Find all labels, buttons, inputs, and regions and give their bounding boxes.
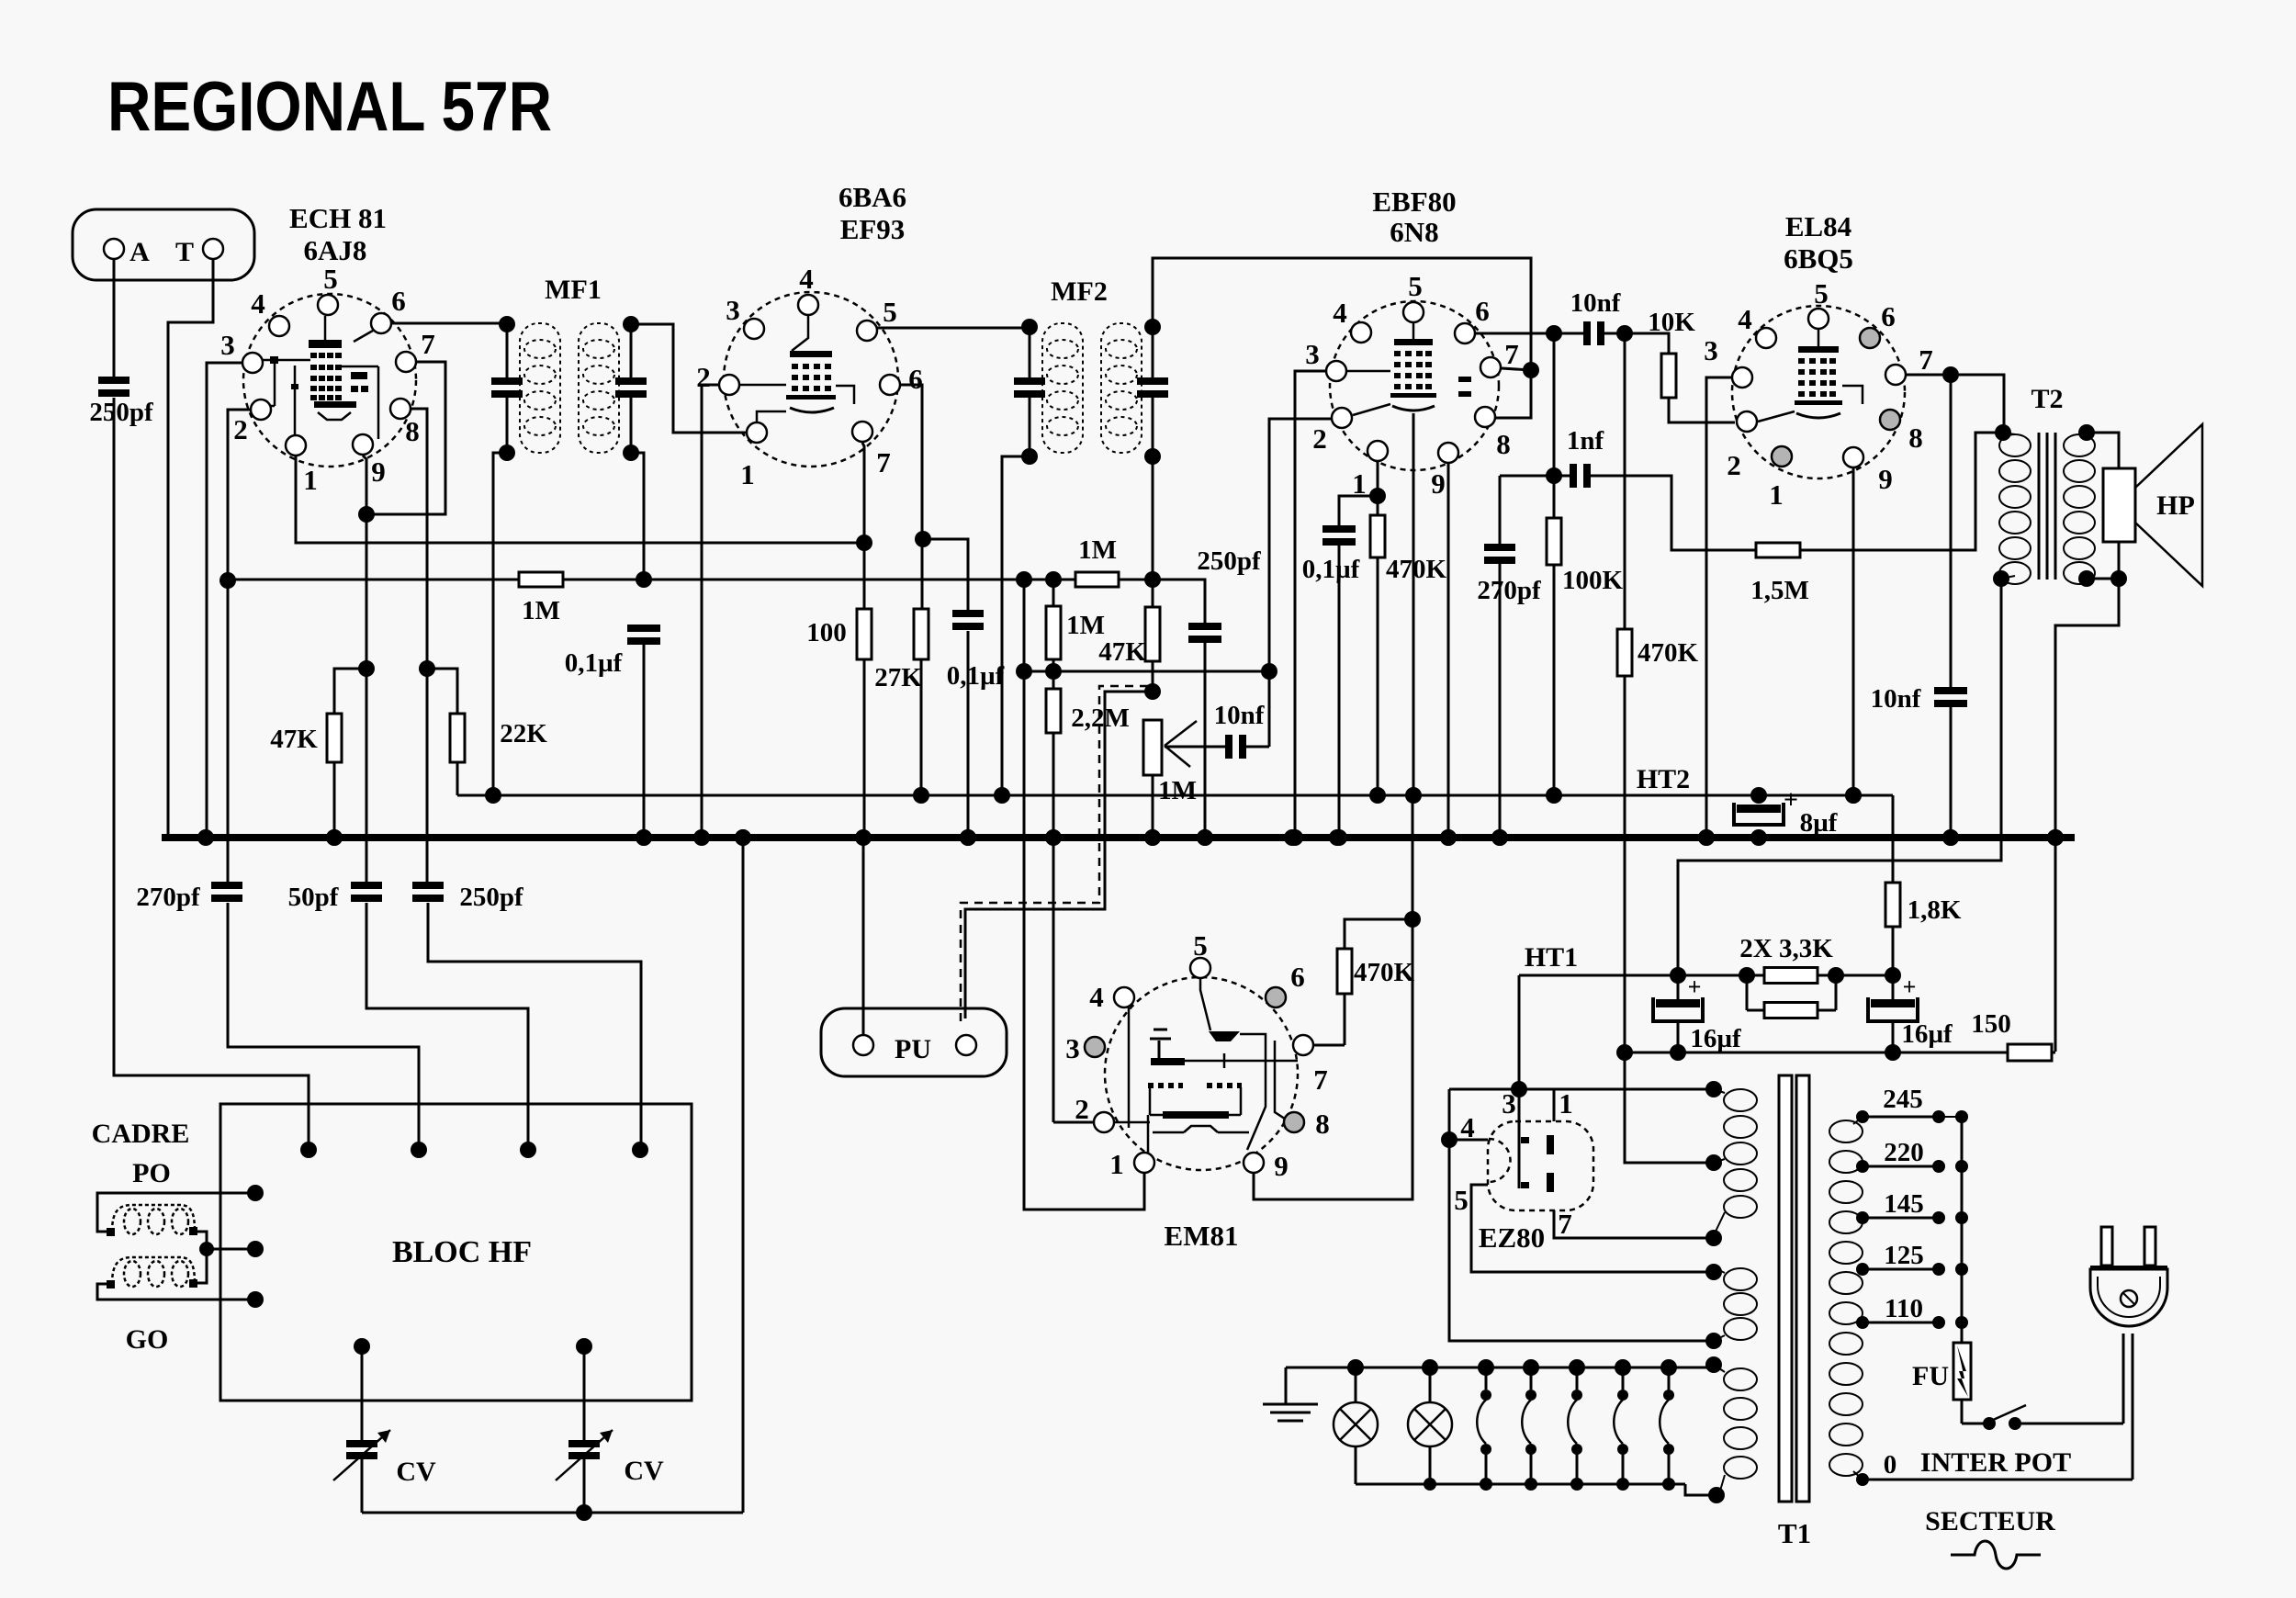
- wire 250pf to BLOC HF: [428, 903, 641, 1150]
- svg-text:7: 7: [421, 328, 435, 360]
- svg-text:2: 2: [233, 413, 248, 445]
- wire 27K to HT2: [920, 659, 923, 795]
- resistor 10K grid stopper: [1661, 354, 1676, 398]
- svg-text:+: +: [1784, 786, 1798, 815]
- EL84 pin 6: [1860, 328, 1880, 348]
- MF1 secondary wire and tuning capacitor: [630, 323, 633, 377]
- wire EM81 pin2 cathode to ground: [1053, 1121, 1093, 1124]
- resistor 47K detector: [1152, 580, 1154, 607]
- svg-text:+: +: [1903, 973, 1917, 1000]
- svg-text:A: A: [129, 237, 150, 267]
- node screen network: [915, 531, 931, 547]
- svg-text:MF2: MF2: [1051, 276, 1108, 307]
- svg-text:16µf: 16µf: [1690, 1024, 1741, 1053]
- svg-text:EF93: EF93: [840, 213, 906, 245]
- svg-text:ECH 81: ECH 81: [289, 202, 387, 234]
- tube V4 EL84 envelope: [1732, 306, 1905, 478]
- svg-text:6BQ5: 6BQ5: [1784, 242, 1853, 275]
- wire ECH81 pin1 cathode line: [296, 456, 864, 543]
- wire ECH81 pin9 down: [363, 456, 366, 882]
- svg-text:CV: CV: [624, 1456, 664, 1486]
- terminal T: [203, 239, 223, 259]
- EM81 interior electrodes: [1158, 1041, 1161, 1058]
- svg-text:4: 4: [799, 263, 814, 295]
- svg-text:5: 5: [1193, 929, 1208, 962]
- resistor 47K oscillator grid leak: [327, 714, 342, 762]
- tap 125: [1863, 1268, 1939, 1271]
- wire 0,1uf to ground bus: [1338, 546, 1341, 835]
- HT2 feed 1,8K from HT1: [1892, 795, 1895, 883]
- wire ECH81 pin2 down (oscillator grid): [228, 410, 250, 882]
- MF2 primary wire and tuning capacitor: [1029, 323, 1031, 377]
- PU terminal right: [956, 1035, 976, 1055]
- svg-text:REGIONAL 57R: REGIONAL 57R: [107, 68, 552, 146]
- tap 145: [1863, 1217, 1939, 1220]
- wire EM81 grid feed: [1024, 580, 1144, 1210]
- ECH81 pin 5: [318, 295, 338, 315]
- wire 0,1uf to ground bus: [967, 631, 970, 835]
- wire ECH81 pin6 to MF1: [392, 322, 507, 325]
- wire 47K to potentiometer: [1152, 661, 1154, 692]
- node pin7/pin9: [358, 506, 375, 523]
- wire 6BA6 pin6 screen: [901, 385, 922, 539]
- HT1 line: [1519, 974, 1893, 977]
- svg-text:1nf: 1nf: [1567, 426, 1604, 456]
- MF2 secondary wire and tuning capacitor: [1152, 323, 1154, 377]
- svg-text:1,5M: 1,5M: [1750, 576, 1809, 605]
- 6BA6 pin 7: [852, 422, 872, 442]
- EBF80 pin 6: [1455, 323, 1475, 343]
- pilot lamp 2: [1429, 1367, 1432, 1402]
- wire T2 secondary bottom to ground bus: [2055, 579, 2119, 1052]
- wire grid line EBF80 pin2: [1269, 419, 1331, 747]
- svg-text:125: 125: [1884, 1241, 1924, 1270]
- wire 1,8K to HT1 node: [1892, 927, 1895, 975]
- tap 0: [1856, 1473, 1869, 1486]
- tap 220: [1863, 1165, 1939, 1168]
- EZ80 interior: [1489, 1139, 1511, 1182]
- wire 100K to HT2: [1553, 565, 1556, 795]
- wire plate node down: [1553, 333, 1556, 476]
- wire to 22K: [427, 669, 457, 714]
- svg-text:0,1µf: 0,1µf: [565, 648, 623, 678]
- svg-text:0,1µf: 0,1µf: [947, 661, 1005, 691]
- svg-text:9: 9: [1274, 1150, 1289, 1182]
- svg-text:2: 2: [1075, 1093, 1089, 1125]
- wire GO bottom to BLOC HF: [97, 1284, 255, 1300]
- svg-text:T2: T2: [2031, 384, 2063, 414]
- chassis ground symbol: [1285, 1367, 1288, 1404]
- T1 pilot winding: [1724, 1368, 1757, 1390]
- pilot lamp 1: [1355, 1367, 1357, 1402]
- wire 6BA6 pin5 to MF2: [877, 327, 1030, 330]
- resistor 22K: [450, 714, 465, 762]
- MF2 primary winding: [1042, 323, 1083, 453]
- svg-text:0,1µf: 0,1µf: [1302, 555, 1360, 584]
- wire MF1 secondary top to 6BA6 grid: [631, 324, 746, 433]
- svg-text:100K: 100K: [1562, 566, 1624, 595]
- EBF80 pin 3: [1326, 361, 1346, 381]
- svg-text:4: 4: [251, 287, 265, 320]
- svg-text:T: T: [175, 237, 194, 267]
- capacitor 16uf filter left: [1677, 975, 1680, 999]
- svg-text:10nf: 10nf: [1570, 288, 1621, 318]
- resistor 1M AVC: [519, 572, 563, 587]
- svg-text:245: 245: [1883, 1085, 1923, 1114]
- svg-text:FU: FU: [1912, 1361, 1949, 1391]
- wire pot to ground bus: [1152, 775, 1154, 835]
- svg-text:INTER POT: INTER POT: [1920, 1447, 2071, 1478]
- AVC line continues: [563, 579, 1075, 581]
- EL84 pin 1: [1772, 446, 1792, 467]
- AVC resistor chain link: [1024, 670, 1269, 673]
- wire antenna A down: [113, 260, 116, 377]
- 6BA6 interior electrodes: [790, 351, 832, 357]
- resistor 1,5M feedback: [1756, 543, 1800, 557]
- svg-text:6: 6: [1290, 961, 1305, 993]
- capacitor 270pf: [211, 882, 242, 889]
- mains sine symbol: [1951, 1541, 2041, 1569]
- capacitor 1nf feedback: [1500, 475, 1570, 478]
- shielded wire dashed screen: [961, 686, 1148, 1021]
- capacitor 250pf oscillator: [412, 882, 444, 889]
- EM81 pin 5: [1190, 958, 1210, 978]
- resistor 470K bias feed: [1624, 333, 1626, 629]
- mains plug SECTEUR: [2101, 1227, 2112, 1266]
- svg-text:2: 2: [1312, 422, 1327, 455]
- fuse FU: [1953, 1343, 1971, 1400]
- wire EZ80 heater-cathode link: [1449, 1088, 1519, 1091]
- BLOC HF input nodes: [300, 1142, 317, 1158]
- tube V2 6BA6 envelope: [724, 292, 898, 467]
- T2 primary winding: [1999, 434, 2031, 456]
- wire 270pf to ground bus: [1499, 564, 1502, 835]
- BLOC HF box: [220, 1104, 692, 1401]
- svg-text:470K: 470K: [1386, 555, 1447, 584]
- svg-text:HT2: HT2: [1637, 764, 1690, 794]
- wire EBF80 pin3 diode to ground bus: [1295, 371, 1325, 835]
- svg-text:CV: CV: [396, 1457, 436, 1487]
- capacitor 0,1uf AVC: [627, 625, 660, 632]
- svg-text:9: 9: [1431, 467, 1446, 500]
- wire 150 to secondary return: [2052, 1052, 2055, 1054]
- tube V1 ECH81 envelope: [243, 294, 416, 467]
- svg-text:6: 6: [391, 285, 406, 317]
- svg-text:220: 220: [1884, 1138, 1924, 1167]
- wire 270pf to BLOC HF: [228, 903, 419, 1150]
- EL84 pin 8: [1880, 410, 1900, 430]
- svg-text:8µf: 8µf: [1800, 808, 1838, 838]
- svg-text:1: 1: [303, 464, 318, 496]
- svg-text:1: 1: [1769, 478, 1784, 511]
- svg-text:10K: 10K: [1648, 308, 1695, 337]
- wire to 47K: [334, 669, 366, 714]
- switch INTER POT: [1961, 1400, 1964, 1424]
- capacitor 16uf filter right: [1892, 975, 1895, 999]
- T2 core: [2038, 433, 2041, 580]
- tube V3 EBF80 envelope: [1330, 301, 1499, 470]
- wire 10nf to ground bus: [1950, 707, 1953, 835]
- wire 2,2M to ground bus and EM81 cathode: [1052, 733, 1055, 1122]
- svg-text:7: 7: [1313, 1063, 1328, 1096]
- wire MF1 primary bottom to HT2: [493, 453, 507, 795]
- svg-text:6N8: 6N8: [1390, 216, 1438, 248]
- svg-text:3: 3: [220, 329, 235, 361]
- svg-text:9: 9: [1878, 463, 1893, 495]
- svg-text:16µf: 16µf: [1901, 1019, 1953, 1049]
- wire 47K to ground bus: [333, 762, 336, 835]
- wire MF2 secondary bottom to detector: [1152, 456, 1154, 580]
- wire 470K to HT2: [1377, 557, 1379, 795]
- svg-text:+: +: [1688, 973, 1702, 1000]
- wire EBF80 pin1 node: [1377, 462, 1379, 496]
- svg-text:T1: T1: [1778, 1517, 1811, 1549]
- EM81 pin 8: [1284, 1112, 1304, 1132]
- coil PO: [124, 1209, 141, 1234]
- svg-text:0: 0: [1884, 1450, 1897, 1480]
- ECH81 pin 9: [353, 434, 373, 455]
- svg-text:270pf: 270pf: [136, 883, 200, 912]
- svg-text:22K: 22K: [500, 719, 547, 748]
- EL84 interior electrodes: [1818, 330, 1820, 349]
- capacitor 250pf detector: [1153, 580, 1205, 623]
- EM81 pin 2: [1094, 1112, 1114, 1132]
- terminal A: [104, 239, 124, 259]
- svg-text:6: 6: [1881, 300, 1896, 332]
- svg-text:470K: 470K: [1354, 958, 1415, 987]
- svg-text:1M: 1M: [1158, 776, 1197, 805]
- svg-text:50pf: 50pf: [288, 883, 339, 912]
- wire 1,5M to T2 primary top: [1800, 433, 2003, 550]
- resistor 470K EBF80: [1377, 496, 1379, 515]
- wire T2 secondary top to speaker: [2087, 433, 2119, 468]
- speaker HP: [2103, 468, 2135, 542]
- svg-text:6AJ8: 6AJ8: [304, 234, 367, 266]
- wire antenna to BLOC HF input: [114, 398, 309, 1150]
- svg-text:470K: 470K: [1638, 638, 1699, 668]
- ECH81 pin 3: [242, 353, 263, 373]
- svg-text:250pf: 250pf: [459, 883, 523, 912]
- wire EZ80 pin5 heater: [1471, 1185, 1714, 1272]
- wire 6BA6 pin7 cathode: [862, 443, 864, 609]
- wire EZ80 pin7 plate 2 to HV bottom: [1554, 1210, 1714, 1238]
- variable capacitor CV1: [361, 1346, 364, 1440]
- variable capacitor CV2: [583, 1346, 586, 1440]
- voltage selector line: [1961, 1117, 1964, 1343]
- wire T2 primary bottom to HT1: [1678, 579, 2001, 973]
- svg-text:3: 3: [726, 294, 740, 326]
- shielded wire solid conductor pot to PU: [965, 692, 1153, 1018]
- T1 heater winding: [1724, 1268, 1757, 1290]
- wire MF2 secondary top to EBF80 pins 7,8: [1153, 258, 1531, 418]
- capacitor 10nf coupling: [1583, 321, 1591, 345]
- T1 primary winding: [1829, 1120, 1863, 1142]
- AVC line: [228, 579, 519, 581]
- svg-text:110: 110: [1885, 1294, 1923, 1323]
- EL84 pin 4: [1756, 328, 1776, 348]
- wire EL84 pin9 screen to HT2: [1852, 468, 1855, 795]
- svg-text:3: 3: [1305, 338, 1320, 370]
- MF1 secondary winding: [579, 323, 619, 453]
- svg-text:2: 2: [696, 361, 711, 393]
- EBF80 pin 9: [1438, 443, 1458, 463]
- svg-text:HP: HP: [2156, 490, 2195, 521]
- wire 22K to HT2 line: [456, 762, 459, 795]
- capacitor 0,1uf screen bypass: [952, 610, 984, 617]
- T2 secondary winding: [2064, 434, 2095, 456]
- capacitor 0,1uf EBF80 cathode: [1339, 496, 1378, 525]
- junction 47K tap: [358, 660, 375, 677]
- wire EL84 pin3 cathode to ground bus: [1706, 377, 1731, 835]
- svg-text:5: 5: [1814, 277, 1829, 309]
- ECH81 pin 1: [286, 435, 306, 456]
- resistor 27K screen feed: [921, 539, 924, 609]
- svg-text:150: 150: [1971, 1009, 2011, 1039]
- wire 470K top to HT2 riser: [1345, 919, 1412, 949]
- EL84 pin 2: [1737, 411, 1757, 432]
- wire 1M to MF2 secondary: [1119, 579, 1153, 581]
- svg-text:4: 4: [1333, 297, 1347, 329]
- potentiometer wiper arrow: [1165, 721, 1197, 746]
- EBF80 pin 7: [1480, 357, 1501, 377]
- wire CV ground return to bus: [362, 1512, 743, 1514]
- EM81 pin 7: [1293, 1035, 1313, 1055]
- 6BA6 pin 4: [798, 295, 818, 315]
- svg-text:1M: 1M: [522, 596, 560, 625]
- HT2 rail: [457, 794, 1893, 797]
- capacitor 8uf HT2 filter: [1737, 805, 1781, 813]
- svg-text:6: 6: [908, 363, 923, 395]
- EM81 pin 3: [1085, 1037, 1105, 1057]
- capacitor 50pf: [351, 882, 382, 889]
- svg-text:PU: PU: [895, 1034, 931, 1064]
- pickup input box PU: [821, 1008, 1007, 1076]
- svg-text:10nf: 10nf: [1871, 684, 1921, 714]
- wire EM81 pin7 to 470K: [1314, 1044, 1345, 1047]
- EBF80 pin 1: [1367, 441, 1388, 461]
- svg-text:5: 5: [1454, 1184, 1469, 1216]
- wire ECH81 pin3 to ground bus: [207, 363, 242, 835]
- svg-text:6: 6: [1475, 295, 1490, 327]
- svg-text:5: 5: [323, 263, 338, 295]
- wire 1nf to 1,5M: [1590, 476, 1756, 550]
- ECH81 interior electrodes: [324, 316, 327, 340]
- EBF80 pin 4: [1351, 322, 1371, 343]
- svg-text:CADRE: CADRE: [92, 1119, 190, 1149]
- MF1 primary winding: [520, 323, 560, 453]
- wire EBF80 pin6 plate: [1476, 332, 1583, 335]
- svg-text:270pf: 270pf: [1477, 576, 1541, 605]
- wire 10nf to 10K: [1604, 332, 1625, 335]
- coil GO: [124, 1261, 141, 1287]
- svg-text:1M: 1M: [1066, 611, 1105, 640]
- EM81 pin 4: [1114, 987, 1134, 1007]
- BLOC HF tuning nodes: [354, 1338, 370, 1355]
- EBF80 interior electrodes: [1412, 323, 1415, 342]
- T1 HV secondary winding: [1724, 1089, 1757, 1111]
- svg-text:HT1: HT1: [1525, 942, 1578, 973]
- ECH81 pin 2: [251, 399, 271, 420]
- resistor 2,2M AVC: [1052, 659, 1055, 689]
- svg-text:47K: 47K: [1098, 637, 1146, 667]
- wire AVC cap to ground bus: [643, 645, 646, 835]
- svg-text:8: 8: [1315, 1108, 1330, 1140]
- svg-text:4: 4: [1089, 981, 1104, 1013]
- EBF80 pin 8: [1475, 407, 1495, 427]
- resistor 1M detector load: [1075, 572, 1119, 587]
- tap 110: [1863, 1322, 1939, 1324]
- tap 245: [1863, 1116, 1939, 1119]
- wire EZ80 plate 1 to HV top: [1519, 1088, 1714, 1091]
- svg-text:7: 7: [1504, 338, 1519, 370]
- wire 50pf to BLOC HF: [366, 903, 528, 1150]
- EM81 pin 6: [1266, 987, 1286, 1007]
- wire MF1 secondary bottom to AVC: [631, 453, 644, 580]
- resistor 100 cathode bias: [857, 609, 872, 659]
- svg-text:3: 3: [1704, 334, 1718, 366]
- svg-text:7: 7: [1558, 1208, 1572, 1240]
- wire 470K to bias rail and HV centre tap: [1625, 676, 1714, 1163]
- wire 100 to ground bus: [863, 659, 866, 835]
- resistor 100K: [1553, 476, 1556, 518]
- EL84 pin 7: [1885, 365, 1906, 385]
- T1 core: [1779, 1075, 1792, 1502]
- svg-text:1,8K: 1,8K: [1908, 895, 1962, 925]
- svg-text:PO: PO: [132, 1158, 171, 1188]
- resistor 150 bias: [2008, 1044, 2052, 1061]
- svg-text:EBF80: EBF80: [1372, 186, 1456, 218]
- wire 6BA6 pin2 to ground bus: [702, 385, 718, 835]
- wire EBF80 pin7 stub: [1502, 368, 1531, 370]
- svg-text:1: 1: [1109, 1148, 1124, 1180]
- junction 22K tap: [419, 660, 435, 677]
- svg-text:5: 5: [883, 296, 897, 328]
- wire EBF80 pin9 to ground bus: [1447, 464, 1450, 835]
- ECH81 pin 7: [396, 352, 416, 372]
- BLOC HF cadre nodes: [247, 1185, 264, 1201]
- svg-text:10nf: 10nf: [1214, 701, 1265, 730]
- tube V5 EM81 magic eye envelope: [1105, 977, 1298, 1170]
- svg-text:6BA6: 6BA6: [838, 181, 906, 213]
- wire 10K to EL84 grid: [1669, 398, 1735, 422]
- wire PU left to ground bus: [862, 835, 865, 1034]
- potentiometer 1M volume: [1143, 720, 1162, 775]
- ECH81 pin 4: [269, 316, 289, 336]
- svg-text:3: 3: [1065, 1032, 1080, 1064]
- wire PO GO junction to BLOC HF: [195, 1232, 207, 1283]
- wave switch contacts: [1485, 1367, 1488, 1390]
- svg-text:1M: 1M: [1078, 535, 1117, 565]
- wire EBF80 cathode interior down to HT2: [1412, 413, 1415, 795]
- svg-text:BLOC HF: BLOC HF: [392, 1235, 532, 1269]
- svg-text:250pf: 250pf: [1197, 546, 1261, 576]
- svg-text:2: 2: [1727, 449, 1741, 481]
- svg-text:5: 5: [1408, 270, 1423, 302]
- svg-text:9: 9: [371, 456, 386, 488]
- 6BA6 pin 2: [719, 375, 739, 395]
- EM81 pin 9: [1244, 1153, 1264, 1173]
- bias rail: [1625, 1052, 2008, 1054]
- ECH81 pin 6: [371, 313, 391, 333]
- 6BA6 pin 5: [857, 321, 877, 341]
- svg-text:8: 8: [1908, 422, 1923, 454]
- EBF80 pin 2: [1332, 408, 1352, 428]
- svg-text:100: 100: [806, 618, 847, 647]
- svg-text:SECTEUR: SECTEUR: [1925, 1506, 2055, 1536]
- svg-text:EL84: EL84: [1785, 210, 1851, 242]
- resistor 1,8K: [1885, 883, 1900, 927]
- svg-text:7: 7: [876, 446, 891, 478]
